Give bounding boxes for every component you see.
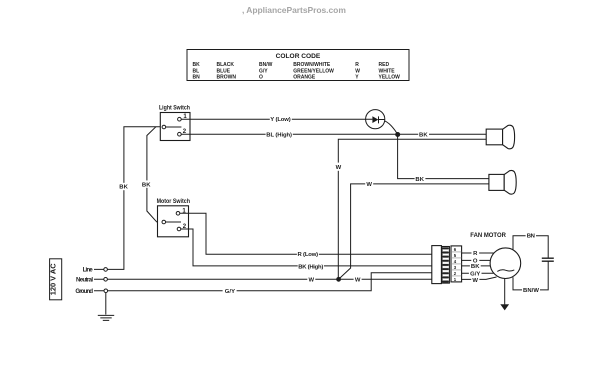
- svg-text:R: R: [473, 251, 478, 257]
- svg-text:BLUE: BLUE: [217, 68, 231, 74]
- svg-text:Motor Switch: Motor Switch: [157, 199, 191, 205]
- svg-text:Line: Line: [83, 268, 94, 274]
- svg-text:BROWN/WHITE: BROWN/WHITE: [293, 62, 331, 68]
- svg-text:W: W: [355, 68, 360, 74]
- svg-text:BN/W: BN/W: [259, 62, 273, 68]
- svg-text:BN: BN: [193, 75, 201, 81]
- svg-text:Ground: Ground: [75, 289, 93, 295]
- svg-text:GREEN/YELLOW: GREEN/YELLOW: [293, 68, 334, 74]
- svg-text:Neutral: Neutral: [76, 278, 93, 284]
- svg-text:W: W: [309, 278, 315, 284]
- svg-text:R (Low): R (Low): [298, 252, 319, 258]
- svg-text:ORANGE: ORANGE: [293, 75, 316, 81]
- svg-text:, AppliancePartsPros.com: , AppliancePartsPros.com: [242, 5, 346, 15]
- svg-text:W: W: [472, 278, 478, 284]
- svg-text:BL: BL: [193, 68, 200, 74]
- svg-text:W: W: [366, 182, 372, 188]
- svg-text:Y (Low): Y (Low): [270, 117, 290, 123]
- svg-text:W: W: [355, 278, 361, 284]
- svg-text:G/Y: G/Y: [259, 68, 268, 74]
- svg-text:Light Switch: Light Switch: [159, 106, 190, 112]
- svg-text:O: O: [259, 75, 263, 81]
- svg-text:BL (High): BL (High): [266, 132, 292, 138]
- svg-text:BN: BN: [527, 234, 535, 240]
- svg-text:BK: BK: [471, 264, 480, 270]
- svg-text:BK: BK: [419, 132, 428, 138]
- svg-text:BK: BK: [415, 177, 424, 183]
- svg-text:COLOR CODE: COLOR CODE: [276, 53, 321, 60]
- svg-text:BK: BK: [119, 185, 128, 191]
- svg-text:120 V AC: 120 V AC: [49, 263, 58, 295]
- svg-text:FAN MOTOR: FAN MOTOR: [470, 232, 506, 239]
- svg-text:BK: BK: [142, 182, 151, 188]
- svg-text:Y: Y: [355, 75, 359, 81]
- svg-text:YELLOW: YELLOW: [379, 75, 401, 81]
- svg-text:BK: BK: [193, 62, 201, 68]
- svg-text:BK (High): BK (High): [298, 265, 323, 271]
- svg-text:BN/W: BN/W: [523, 288, 539, 294]
- svg-text:R: R: [355, 62, 359, 68]
- svg-text:W: W: [336, 165, 342, 171]
- svg-text:RED: RED: [379, 62, 390, 68]
- svg-text:WHITE: WHITE: [379, 68, 396, 74]
- svg-text:BLACK: BLACK: [217, 62, 235, 68]
- svg-text:BROWN: BROWN: [217, 75, 237, 81]
- svg-text:G/Y: G/Y: [225, 289, 235, 295]
